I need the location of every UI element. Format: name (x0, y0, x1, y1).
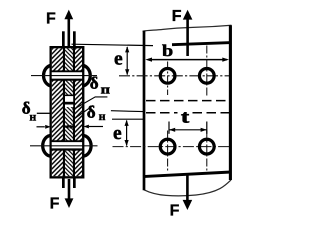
hole column centerline left top (167, 62, 169, 96)
svg-text:н: н (29, 109, 36, 123)
strap block body (51, 47, 84, 177)
rivet hole 1 (160, 68, 175, 83)
label delta-p (plate thickness) (90, 74, 111, 97)
force arrow up (plan view) (183, 10, 193, 56)
hole column centerline right bottom (206, 131, 208, 172)
svg-text:н: н (99, 109, 106, 123)
leader delta-p (73, 97, 108, 110)
middle plate hatch (65, 48, 73, 176)
label delta-n right (strap thickness) (87, 103, 106, 124)
block outline redraw (51, 47, 84, 177)
svg-text:e: e (114, 49, 123, 70)
svg-text:t: t (181, 106, 189, 126)
lower plate end strip (62, 177, 76, 188)
hidden edge dashed line upper (146, 100, 229, 102)
rivet 1 shank (50, 71, 85, 79)
upper plate end strip (62, 31, 76, 47)
extension line for e bottom (112, 118, 144, 120)
right strap hatch (75, 48, 82, 176)
force arrow down (plan view) (183, 173, 193, 210)
force arrow down (section view) (65, 179, 74, 208)
rivet hole 4 (199, 139, 214, 154)
svg-text:δ: δ (90, 74, 99, 93)
force arrow up (section view) (64, 10, 73, 47)
svg-text:F: F (170, 203, 180, 218)
rivet 1 head right (82, 65, 90, 86)
plan view: top break line (143, 25, 232, 31)
plan view: left plate edge (143, 31, 146, 190)
hole column centerline right top (206, 46, 208, 96)
svg-text:F: F (46, 10, 56, 27)
plan view: right plate edge (229, 25, 232, 180)
plate-strap interface wall right (73, 48, 75, 177)
gap between plate ends (63, 95, 75, 107)
svg-text:b: b (162, 41, 173, 60)
rivet 2 head right (82, 135, 91, 156)
label delta-n left (22, 98, 37, 123)
upper plate end edge (crossbar top) (172, 43, 232, 45)
dimension e top (114, 46, 129, 75)
rivet 2 axis line (30, 145, 98, 147)
leader delta-n left (37, 112, 50, 114)
hole row 2 centerline (113, 146, 230, 148)
rivet hole 3 (160, 139, 175, 154)
dimension e bottom (113, 120, 129, 147)
plate-strap interface wall left (63, 48, 65, 177)
hidden edge dashed line lower (146, 112, 229, 114)
rivet 1 head left (44, 65, 52, 86)
rivet 2 head left (43, 135, 52, 156)
hole column centerline left bottom (167, 131, 169, 171)
delta-n measuring arrows (37, 125, 104, 129)
rivet hole 2 (199, 68, 214, 83)
svg-text:F: F (50, 195, 60, 212)
dimension t (169, 122, 207, 134)
extension line to hidden edge (plan view) (111, 110, 144, 113)
svg-text:δ: δ (87, 103, 96, 122)
rivet 2 shank (50, 141, 85, 149)
dimension b (145, 41, 229, 62)
svg-text:e: e (113, 123, 122, 144)
rivet 1 axis line (31, 75, 97, 77)
svg-text:п: п (101, 81, 111, 96)
leader delta-n right (74, 105, 94, 119)
extension line for e top (72, 44, 154, 45)
svg-text:F: F (172, 8, 182, 25)
lower plate end edge (crossbar bottom) (143, 172, 231, 177)
left strap hatch (52, 48, 63, 176)
hole row 1 centerline (119, 75, 229, 77)
plan view: bottom break line (144, 180, 231, 196)
